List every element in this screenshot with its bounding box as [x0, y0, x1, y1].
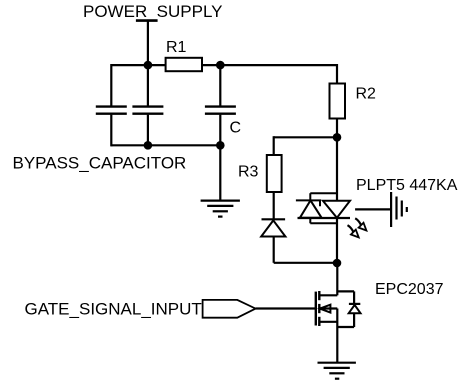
wire R3 to D1 — [273, 192, 275, 219]
resistor R1 — [166, 58, 202, 71]
label EPC2037 — [375, 281, 444, 298]
resistor R3 — [267, 155, 282, 192]
wire body diode bottom branch — [337, 326, 354, 328]
wire mid branch upper — [147, 65, 149, 106]
svg-text:POWER_SUPPLY: POWER_SUPPLY — [83, 2, 223, 21]
svg-text:R1: R1 — [166, 39, 187, 56]
wire main vertical through laser diode — [336, 137, 338, 262]
wire D1 branch bottom horizontal — [274, 262, 337, 264]
ground rotated at laser case — [391, 192, 407, 227]
junction node bypass bottom — [144, 141, 153, 150]
ground at source — [318, 363, 356, 379]
svg-text:R2: R2 — [356, 86, 377, 103]
svg-text:GATE_SIGNAL_INPUT: GATE_SIGNAL_INPUT — [25, 299, 202, 318]
bypass capacitor 2 — [132, 107, 163, 114]
wire source lead — [319, 321, 337, 323]
wire R3 top — [273, 136, 275, 155]
wire to ground under C — [219, 145, 221, 200]
power rail symbol POWER_SUPPLY — [136, 19, 158, 22]
wire bypass bottom rail — [111, 144, 220, 146]
resistor R2 — [330, 84, 346, 119]
wire drain lead — [319, 294, 337, 296]
wire body diode top branch — [337, 290, 354, 292]
transistor Q1 EPC2037 channel segments — [318, 291, 320, 326]
svg-text:R3: R3 — [238, 164, 259, 181]
wire left branch lower — [110, 115, 112, 147]
wire R2 bottom — [336, 119, 338, 138]
wire gate lead — [256, 307, 316, 309]
label R2 — [356, 86, 377, 103]
laser diode PLPT5 447KA package box — [310, 193, 337, 223]
port GATE_SIGNAL_INPUT pointer — [203, 300, 256, 318]
wire left branch upper — [110, 64, 112, 106]
svg-text:BYPASS_CAPACITOR: BYPASS_CAPACITOR — [13, 154, 187, 173]
wire power stub — [147, 21, 149, 66]
net label POWER_SUPPLY — [83, 2, 223, 21]
junction node at power rail — [144, 61, 153, 70]
wire capacitor C branch upper — [219, 65, 221, 106]
wire laser case lead — [355, 208, 391, 210]
wire drain vertical — [336, 263, 338, 296]
junction node C bottom — [216, 141, 225, 150]
label GATE_SIGNAL_INPUT — [25, 299, 202, 318]
wire top rail — [111, 64, 337, 66]
junction node at R1 right — [216, 61, 225, 70]
transistor Q1 EPC2037 gate bar — [315, 292, 317, 326]
laser diode protection diode triangle — [300, 200, 322, 217]
wire mid branch lower — [147, 115, 149, 147]
wire R2 top — [336, 64, 338, 84]
svg-text:PLPT5 447KA: PLPT5 447KA — [356, 177, 458, 194]
label BYPASS_CAPACITOR — [13, 154, 187, 173]
transistor Q1 EPC2037 body arrow — [320, 305, 337, 313]
svg-text:EPC2037: EPC2037 — [375, 281, 444, 298]
junction node R2 bottom — [333, 133, 342, 142]
wire R3 branch horizontal — [274, 136, 337, 138]
label R1 — [166, 39, 187, 56]
label R3 — [238, 164, 259, 181]
bypass capacitor 1 — [96, 107, 127, 114]
junction node laser bottom — [333, 259, 342, 268]
svg-text:C: C — [230, 120, 242, 137]
wire body diode right vertical lower — [353, 313, 355, 327]
wire D1 bottom — [273, 237, 275, 263]
diode D1 — [261, 219, 285, 236]
laser diode main triangle — [323, 201, 350, 218]
ground under capacitor C — [201, 201, 240, 217]
label C — [230, 120, 242, 137]
label PLPT5 447KA — [356, 177, 458, 194]
laser diode protection diode cathode bar — [296, 200, 320, 206]
wire body diode right vertical upper — [353, 291, 355, 304]
capacitor C — [205, 107, 236, 114]
wire capacitor C branch lower — [219, 115, 221, 147]
laser diode cathode bar — [298, 217, 351, 219]
laser diode light emission arrows — [348, 218, 367, 237]
wire source vertical to ground — [336, 309, 338, 363]
transistor Q1 EPC2037 body diode — [349, 304, 361, 313]
